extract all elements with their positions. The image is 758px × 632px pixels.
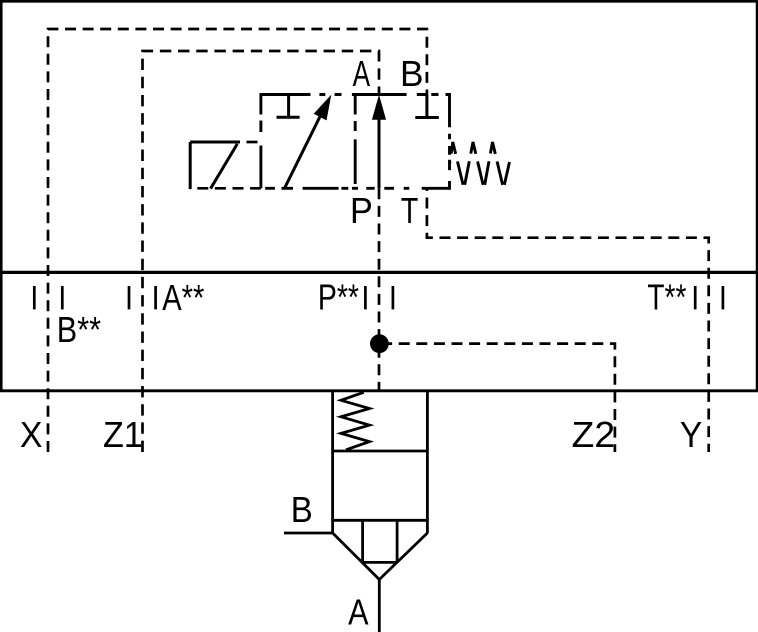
svg-text:B: B — [291, 489, 313, 530]
svg-text:X: X — [20, 414, 43, 455]
svg-text:Y: Y — [680, 414, 702, 455]
svg-text:Z2: Z2 — [572, 414, 616, 455]
svg-text:A: A — [348, 591, 368, 632]
svg-text:P**: P** — [318, 277, 359, 318]
svg-text:B: B — [400, 53, 424, 94]
svg-text:A: A — [353, 53, 371, 94]
svg-text:T**: T** — [647, 277, 686, 318]
svg-text:Z1: Z1 — [103, 414, 143, 455]
svg-text:T: T — [401, 190, 419, 231]
svg-text:A**: A** — [162, 277, 204, 318]
svg-text:P: P — [350, 190, 373, 231]
svg-text:B**: B** — [57, 309, 101, 350]
